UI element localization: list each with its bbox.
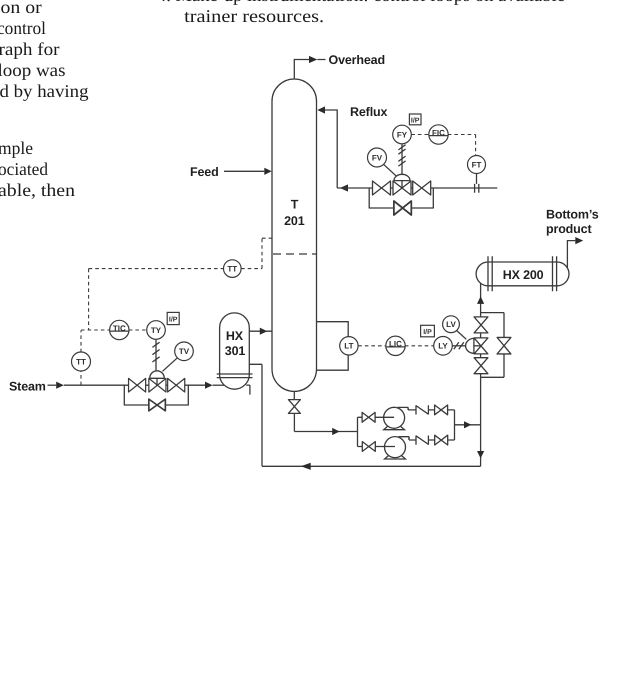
svg-text:d by having: d by having (0, 81, 89, 101)
svg-text:T: T (291, 198, 299, 212)
svg-text:I/P: I/P (411, 116, 420, 124)
svg-text:4. Make-up instrumentation:: 4. Make-up instrumentation: control loop… (157, 0, 565, 5)
svg-text:Bottom’s: Bottom’s (546, 207, 599, 221)
svg-text:I/P: I/P (169, 315, 178, 323)
svg-text:FIC: FIC (432, 128, 445, 137)
svg-text:Overhead: Overhead (329, 53, 385, 67)
svg-text:LY: LY (438, 342, 448, 351)
svg-text:301: 301 (225, 344, 246, 358)
svg-text:LT: LT (344, 342, 353, 351)
svg-text:201: 201 (284, 214, 305, 228)
svg-text:TIC: TIC (113, 324, 126, 333)
svg-text:product: product (546, 222, 592, 236)
svg-text:I/P: I/P (423, 328, 432, 336)
svg-text:FV: FV (372, 153, 383, 162)
svg-text:control: control (0, 18, 46, 38)
svg-text:Reflux: Reflux (350, 105, 388, 119)
svg-text:TT: TT (227, 264, 237, 273)
svg-text:loop was: loop was (0, 60, 66, 80)
svg-text:ociated: ociated (0, 159, 48, 179)
svg-text:FT: FT (472, 160, 482, 169)
svg-text:Steam: Steam (9, 380, 46, 394)
svg-text:HX: HX (226, 329, 244, 343)
svg-text:LIC: LIC (389, 340, 402, 349)
svg-text:TV: TV (179, 347, 190, 356)
svg-text:Feed: Feed (190, 165, 219, 179)
svg-text:LV: LV (446, 320, 456, 329)
svg-text:able, then: able, then (0, 180, 75, 200)
svg-text:TT: TT (76, 357, 86, 366)
svg-text:FY: FY (397, 130, 408, 139)
svg-text:HX 200: HX 200 (503, 268, 544, 282)
svg-text:raph for: raph for (0, 39, 60, 59)
svg-text:mple: mple (0, 138, 33, 158)
svg-text:trainer resources.: trainer resources. (184, 6, 324, 26)
svg-text:ion or: ion or (0, 0, 42, 17)
svg-text:TY: TY (151, 326, 162, 335)
